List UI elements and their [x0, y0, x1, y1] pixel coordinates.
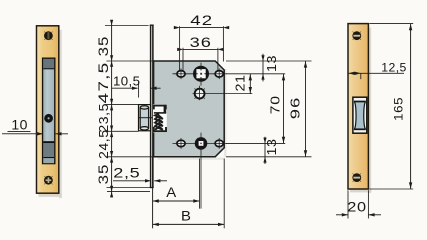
svg-text:96: 96	[288, 97, 303, 120]
svg-text:24,5: 24,5	[97, 129, 111, 159]
svg-text:12,5: 12,5	[381, 60, 406, 74]
svg-text:2,5: 2,5	[113, 167, 140, 181]
svg-text:23,5: 23,5	[97, 103, 111, 133]
svg-text:42: 42	[190, 13, 213, 28]
svg-text:B: B	[181, 209, 191, 225]
svg-text:13: 13	[265, 138, 279, 155]
svg-text:10,5: 10,5	[113, 74, 140, 89]
svg-text:21: 21	[233, 74, 247, 91]
svg-text:A: A	[166, 185, 176, 201]
svg-text:47,5: 47,5	[96, 61, 112, 103]
svg-text:35: 35	[97, 36, 112, 57]
svg-text:70: 70	[268, 95, 282, 114]
svg-text:36: 36	[190, 35, 212, 50]
svg-text:165: 165	[391, 97, 405, 121]
svg-text:35: 35	[97, 164, 112, 185]
svg-text:20: 20	[347, 199, 367, 215]
svg-text:13: 13	[265, 55, 279, 72]
svg-text:10: 10	[11, 117, 27, 133]
